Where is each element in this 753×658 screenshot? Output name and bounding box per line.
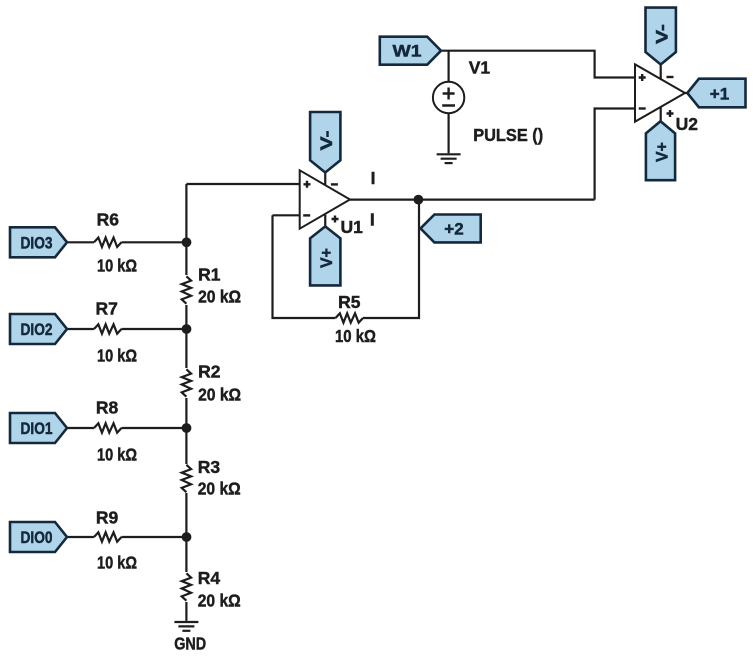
wire junction to U2 -in xyxy=(595,109,635,200)
resistor R2 xyxy=(182,369,191,396)
svg-text:10 kΩ: 10 kΩ xyxy=(97,552,137,572)
svg-text:+1: +1 xyxy=(710,84,729,103)
svg-text:DIO0: DIO0 xyxy=(21,528,53,547)
pin + (U1 +in) xyxy=(304,181,311,188)
flag +1 xyxy=(687,79,745,108)
op-amp U2 xyxy=(635,64,685,121)
svg-text:DIO2: DIO2 xyxy=(21,320,53,339)
svg-text:V+: V+ xyxy=(317,248,336,268)
pin - (U1 V-) xyxy=(331,183,338,185)
svg-text:V-: V- xyxy=(653,24,672,44)
wire DIO1 row xyxy=(67,427,186,429)
flag DIO3 xyxy=(10,227,67,257)
node junction DIO2 xyxy=(182,324,192,334)
resistor R7 xyxy=(94,324,121,333)
flag V+ (U2) xyxy=(646,121,675,180)
svg-text:R7: R7 xyxy=(96,299,118,319)
flag V- (U1) xyxy=(310,112,340,173)
svg-text:20 kΩ: 20 kΩ xyxy=(198,479,241,499)
svg-text:V1: V1 xyxy=(469,58,491,78)
wire DIO2 row xyxy=(67,328,186,330)
wire U1 V+ stub xyxy=(324,215,326,228)
wire U1 -in xyxy=(273,214,300,216)
svg-text:10 kΩ: 10 kΩ xyxy=(335,326,376,346)
svg-text:20 kΩ: 20 kΩ xyxy=(198,385,241,405)
svg-text:I: I xyxy=(371,168,376,188)
svg-text:10 kΩ: 10 kΩ xyxy=(97,256,137,276)
voltage source V1 xyxy=(433,82,464,113)
resistor R1 xyxy=(182,276,191,303)
resistor R6 xyxy=(94,238,121,247)
svg-text:10 kΩ: 10 kΩ xyxy=(97,444,137,464)
svg-text:R9: R9 xyxy=(96,507,119,527)
flag V+ (U1) xyxy=(310,226,340,285)
svg-text:I: I xyxy=(370,209,375,229)
svg-text:V-: V- xyxy=(317,131,336,151)
wire DIO3 row xyxy=(67,241,186,243)
resistor R3 xyxy=(182,465,191,492)
flag V- (U2) xyxy=(646,8,676,65)
resistor R5 xyxy=(336,313,363,322)
ground xyxy=(174,622,198,631)
svg-text:U1: U1 xyxy=(341,217,364,237)
svg-text:W1: W1 xyxy=(393,41,422,60)
svg-text:R6: R6 xyxy=(97,210,120,230)
wire U2 V+ stub xyxy=(660,107,662,125)
resistor R4 xyxy=(182,573,191,600)
svg-text:DIO1: DIO1 xyxy=(21,419,53,438)
wire U2 output stub xyxy=(685,92,687,94)
svg-text:DIO3: DIO3 xyxy=(21,233,53,252)
wire ladder column xyxy=(185,184,187,621)
svg-text:R1: R1 xyxy=(198,264,221,284)
op-amp U1 xyxy=(300,170,350,228)
wire ladder top to U1 +in xyxy=(186,183,299,185)
wire U2 V- stub xyxy=(660,63,662,79)
flag W1 xyxy=(380,37,441,65)
pin - (U1 -in) xyxy=(303,214,310,216)
flag DIO2 xyxy=(10,314,67,344)
flag DIO0 xyxy=(10,522,67,552)
pin + (U2 V+) xyxy=(667,110,674,117)
wire V1 bottom stub xyxy=(448,113,450,153)
resistor R8 xyxy=(94,423,121,432)
svg-text:R2: R2 xyxy=(198,361,221,381)
svg-text:20 kΩ: 20 kΩ xyxy=(198,591,241,611)
pin - (U2 V-) xyxy=(667,76,674,78)
svg-text:U2: U2 xyxy=(676,114,699,134)
svg-text:+2: +2 xyxy=(444,219,463,238)
pin - (U2 -in) xyxy=(639,107,646,109)
resistor R9 xyxy=(94,532,121,541)
svg-text:20 kΩ: 20 kΩ xyxy=(198,286,241,306)
svg-text:R3: R3 xyxy=(198,457,221,477)
node output junction xyxy=(414,195,424,205)
svg-text:PULSE (): PULSE () xyxy=(473,125,543,145)
ground (V1) xyxy=(437,154,461,163)
pin + (U2 +in) xyxy=(639,74,646,81)
svg-text:R5: R5 xyxy=(338,292,361,312)
flag +2 xyxy=(421,215,481,243)
svg-text:V+: V+ xyxy=(653,142,672,162)
svg-text:R8: R8 xyxy=(96,397,119,417)
svg-text:GND: GND xyxy=(174,634,206,654)
wire U1 V- stub xyxy=(324,171,326,185)
node junction DIO3 xyxy=(182,237,192,247)
svg-text:10 kΩ: 10 kΩ xyxy=(97,346,137,366)
wire DIO0 row xyxy=(67,536,186,538)
pin + (U1 V+) xyxy=(332,216,339,223)
wire V1 top stub xyxy=(448,51,450,82)
node junction DIO1 xyxy=(182,423,192,433)
node junction DIO0 xyxy=(182,532,192,542)
wire W1 to U2 +in xyxy=(441,51,635,78)
wire U1 output xyxy=(350,199,595,201)
flag DIO1 xyxy=(10,413,67,443)
wire feedback loop xyxy=(273,200,420,318)
svg-text:R4: R4 xyxy=(198,568,221,588)
